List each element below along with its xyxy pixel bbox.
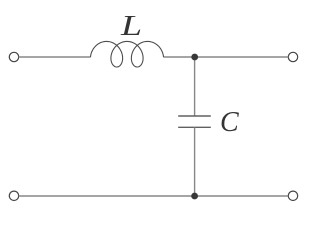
svg-text:L: L — [120, 10, 142, 41]
inductor L coil — [90, 41, 163, 67]
terminal circle top-right — [288, 52, 297, 61]
capacitor C bottom plate — [178, 126, 211, 128]
svg-text:C: C — [220, 107, 239, 138]
node junction dot top — [191, 54, 198, 61]
capacitor C top plate — [178, 115, 211, 117]
node junction dot bottom — [191, 193, 198, 200]
wire top-left segment — [19, 56, 91, 58]
wire capacitor upper lead — [194, 57, 196, 116]
terminal circle bottom-right — [288, 191, 297, 200]
terminal circle bottom-left — [9, 191, 18, 200]
label L — [120, 10, 142, 41]
wire capacitor lower lead — [194, 127, 196, 196]
wire top-right segment — [163, 56, 288, 58]
wire bottom segment — [19, 195, 289, 197]
terminal circle top-left — [9, 52, 18, 61]
